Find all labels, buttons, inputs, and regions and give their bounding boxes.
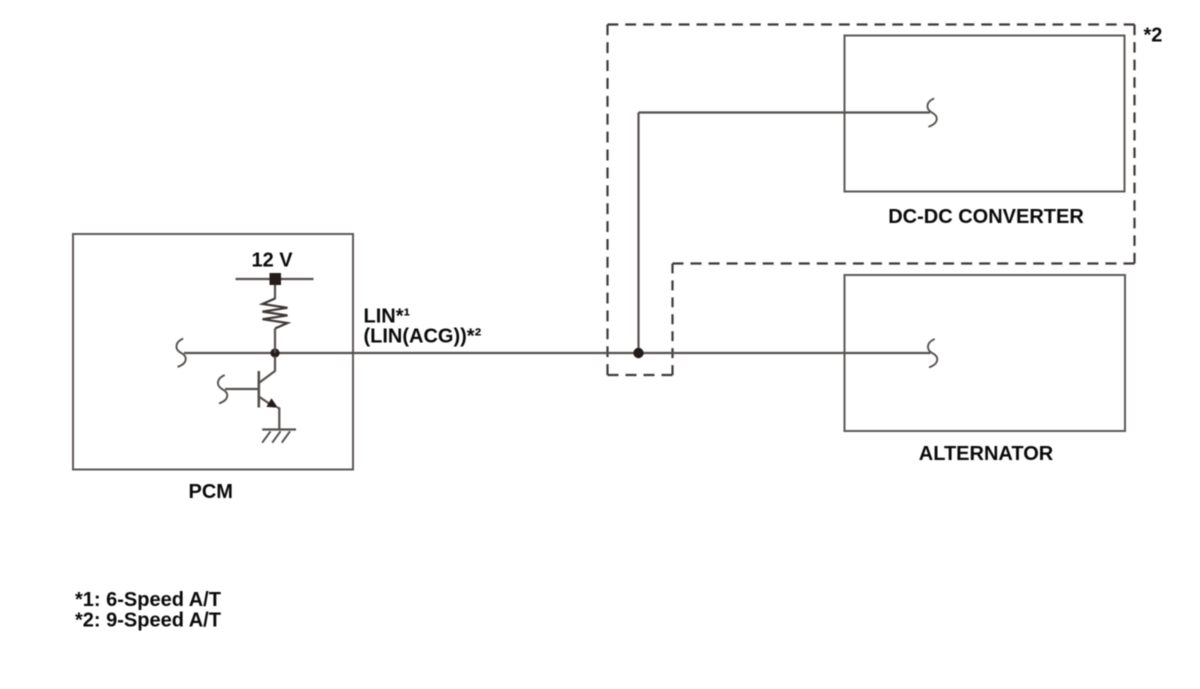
svg-text:*2: 9-Speed A/T: *2: 9-Speed A/T xyxy=(75,609,221,631)
svg-text:ALTERNATOR: ALTERNATOR xyxy=(919,443,1054,465)
svg-text:(LIN(ACG))*²: (LIN(ACG))*² xyxy=(364,326,482,348)
svg-text:*1: 6-Speed A/T: *1: 6-Speed A/T xyxy=(75,589,221,611)
svg-text:12 V: 12 V xyxy=(252,250,294,272)
svg-text:LIN*¹: LIN*¹ xyxy=(364,305,411,327)
svg-text:PCM: PCM xyxy=(189,481,233,503)
svg-text:DC-DC CONVERTER: DC-DC CONVERTER xyxy=(888,206,1084,228)
svg-text:*2: *2 xyxy=(1144,24,1163,46)
